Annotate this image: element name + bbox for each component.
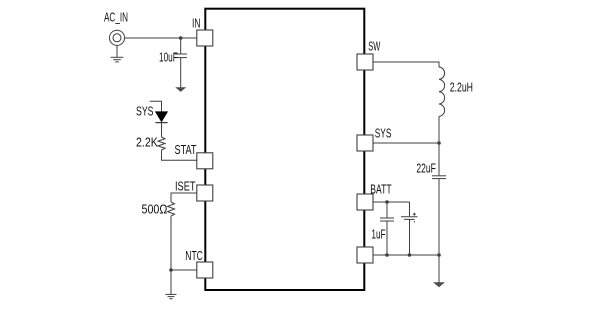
junction rail bottom — [437, 253, 441, 257]
svg-text:STAT: STAT — [175, 143, 197, 157]
svg-text:2.2K: 2.2K — [136, 136, 158, 150]
wire BATT node to C3 — [386, 202, 388, 218]
wire D1 to R1 — [161, 123, 163, 137]
pin box SW — [357, 54, 373, 70]
svg-text:SYS: SYS — [136, 105, 154, 119]
wire bottom net — [373, 254, 439, 256]
inductor L1 2.2uH — [439, 67, 445, 116]
svg-text:10uF: 10uF — [159, 51, 178, 65]
wire SYS pin to rail — [373, 142, 439, 144]
wire C2 to bottom net — [438, 179, 440, 255]
wire C3 to bottom net — [386, 221, 388, 255]
ground under R2 — [166, 294, 177, 298]
wire L1 to SYS rail — [438, 116, 440, 175]
junction BT1 bottom — [408, 253, 412, 257]
pin box NTC — [197, 262, 213, 278]
junction BATT node — [385, 200, 389, 204]
pin box ISET — [197, 185, 213, 201]
svg-text:500Ω: 500Ω — [142, 203, 168, 217]
pin box IN — [197, 30, 213, 46]
wire AC_IN to IN pin — [125, 37, 197, 39]
svg-text:2.2uH: 2.2uH — [450, 81, 473, 95]
wire VIN to C1 — [180, 38, 182, 54]
resistor R2 500 — [168, 202, 175, 216]
wire C1 to ground — [180, 58, 182, 88]
junction NTC node — [169, 268, 173, 272]
ground arrow C1 — [176, 88, 185, 92]
wire SW pin to L1 — [373, 62, 439, 67]
resistor R1 2.2K — [158, 137, 165, 150]
wire ISET pin to R2 — [171, 193, 197, 202]
junction C3 bottom — [385, 253, 389, 257]
wire node to ground — [170, 270, 172, 294]
capacitor C1 10uF — [175, 54, 188, 58]
ground under J1 — [111, 57, 124, 62]
pin box STAT — [197, 153, 213, 169]
wire node to NTC pin — [171, 269, 197, 271]
pin box BATT — [357, 194, 373, 210]
capacitor C2 22uF — [432, 176, 446, 179]
wire R2 to NTC node — [170, 216, 172, 270]
junction node VIN — [179, 36, 183, 40]
wire J1 to ground — [116, 45, 118, 57]
svg-text:ISET: ISET — [175, 180, 196, 194]
svg-text:SYS: SYS — [375, 127, 392, 141]
power tap SYS — [150, 101, 162, 111]
wire R1 to STAT pin — [162, 150, 197, 160]
capacitor C3 1uF — [380, 218, 394, 221]
svg-text:AC_IN: AC_IN — [104, 11, 128, 25]
wire rail to ground — [438, 255, 440, 283]
wire BATT pin to BT1 — [373, 201, 410, 203]
pin box GND — [357, 247, 373, 263]
IC U1 body — [205, 9, 364, 290]
junction SYS rail — [437, 141, 441, 145]
svg-text:1uF: 1uF — [371, 228, 385, 242]
svg-text:SW: SW — [368, 40, 380, 54]
diode D1 — [155, 112, 167, 123]
pin box SYS — [357, 135, 373, 151]
battery BT1 — [401, 202, 418, 255]
svg-text:IN: IN — [192, 17, 201, 31]
svg-text:22uF: 22uF — [416, 162, 436, 176]
connector J1 AC_IN — [109, 30, 124, 45]
ground arrow rail — [434, 283, 444, 287]
svg-text:BATT: BATT — [370, 183, 392, 197]
svg-text:NTC: NTC — [185, 249, 203, 263]
